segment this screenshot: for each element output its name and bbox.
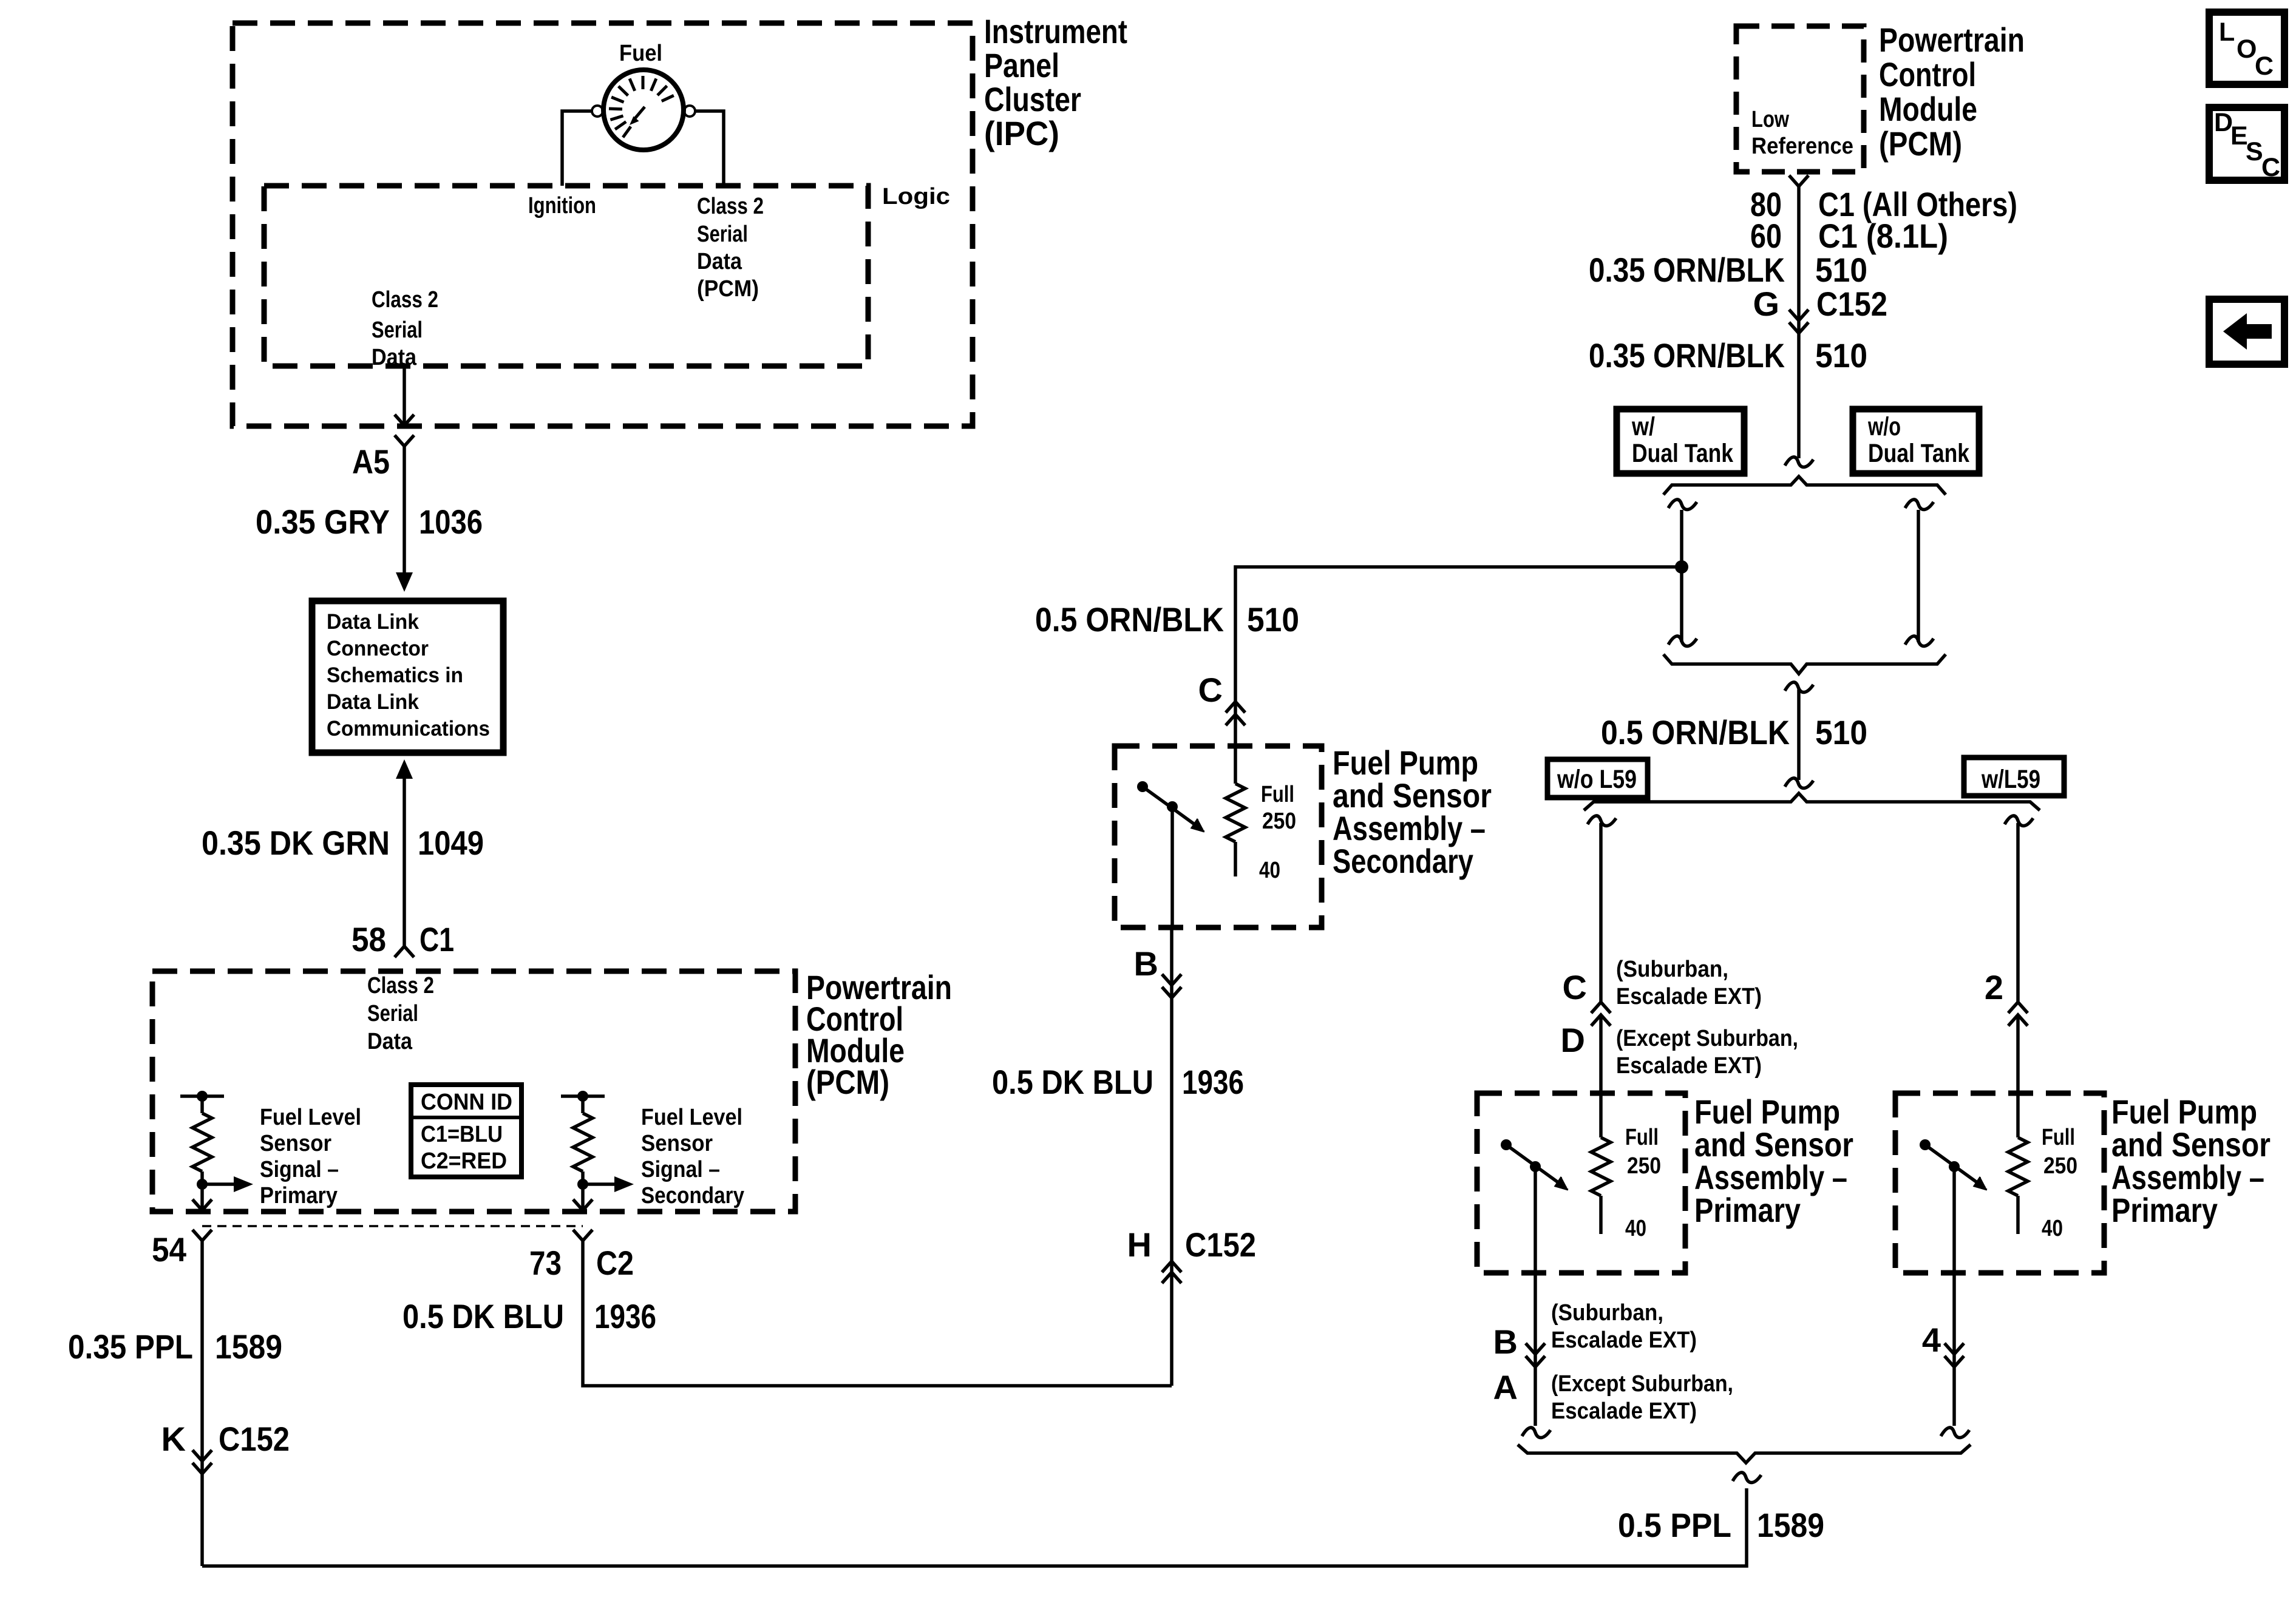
svg-text:54: 54 (152, 1230, 186, 1269)
wire left branch down (1599, 823, 1603, 1002)
svg-text:H: H (1127, 1225, 1152, 1264)
wire label 0.5 DK BLU 1936 (pin 73) (402, 1297, 656, 1335)
svg-text:C1=BLU: C1=BLU (421, 1122, 503, 1147)
curl right branch bottom (1941, 1428, 1969, 1438)
connector B/A (below primary left) (1526, 1343, 1545, 1367)
svg-text:Secondary: Secondary (1333, 842, 1473, 880)
svg-text:C: C (2255, 52, 2274, 81)
svg-text:CONN ID: CONN ID (421, 1090, 512, 1115)
label: Fuel Level Sensor Signal - Secondary (641, 1105, 744, 1209)
svg-text:Class 2: Class 2 (367, 973, 434, 998)
svg-text:(PCM): (PCM) (1879, 124, 1962, 163)
connector K C152 (192, 1450, 212, 1474)
svg-text:250: 250 (1262, 808, 1296, 834)
svg-text:Class 2: Class 2 (372, 287, 438, 313)
svg-text:A5: A5 (352, 442, 390, 481)
svg-text:Full: Full (1261, 782, 1294, 807)
svg-text:1049: 1049 (418, 824, 484, 862)
w/ Dual Tank box (1617, 409, 1744, 473)
label: Low Reference (1751, 107, 1853, 159)
brace merge dual tank (1663, 654, 1946, 674)
pin label A5 (352, 442, 390, 481)
PCM low reference dashed box (1736, 26, 1864, 172)
svg-text:K: K (161, 1420, 186, 1458)
connector fork 58 C1 (395, 946, 414, 957)
svg-text:D: D (1561, 1021, 1585, 1059)
wire gauge right to Class 2 (695, 111, 724, 186)
svg-text:(IPC): (IPC) (984, 114, 1059, 152)
curl right branch top (2005, 816, 2033, 826)
curl right bus top (1905, 500, 1934, 510)
svg-text:Control: Control (1879, 55, 1976, 93)
svg-text:Cluster: Cluster (984, 80, 1081, 118)
svg-text:4: 4 (1922, 1321, 1941, 1359)
svg-text:0.5 DK BLU: 0.5 DK BLU (992, 1063, 1153, 1101)
svg-text:C152: C152 (219, 1420, 290, 1458)
svg-text:Ignition: Ignition (528, 193, 596, 219)
note (Except Suburban, Escalade EXT) lower (1551, 1371, 1733, 1424)
svg-text:Secondary: Secondary (641, 1183, 744, 1209)
right bus wire (1917, 510, 1920, 642)
connector fork pin 54 (192, 1230, 212, 1241)
sender resistor (primary right) (2008, 1137, 2028, 1234)
brace split L59 (1584, 793, 2040, 810)
label: Fuel (619, 41, 662, 66)
svg-text:Serial: Serial (697, 222, 748, 247)
wire IPC class2 output (402, 366, 406, 424)
svg-text:C1 (8.1L): C1 (8.1L) (1818, 217, 1948, 255)
svg-text:0.5 PPL: 0.5 PPL (1618, 1506, 1731, 1544)
svg-text:Powertrain: Powertrain (1879, 21, 2025, 59)
curl below merge (1785, 682, 1813, 693)
svg-text:C: C (2261, 153, 2280, 182)
svg-text:Data: Data (367, 1029, 413, 1054)
svg-text:Primary: Primary (2111, 1191, 2218, 1229)
svg-text:w/L59: w/L59 (1981, 765, 2040, 794)
svg-text:Escalade EXT): Escalade EXT) (1551, 1327, 1697, 1353)
label: Full 250 40 (secondary) (1259, 782, 1296, 883)
svg-text:Class 2: Class 2 (697, 194, 764, 219)
svg-text:250: 250 (2043, 1153, 2077, 1179)
svg-text:Serial: Serial (367, 1001, 418, 1026)
wire label 0.35 ORN/BLK 510 (lower) (1589, 336, 1867, 375)
back arrow icon (2223, 313, 2272, 350)
logic inner dashed box (264, 186, 868, 366)
wire label 0.5 DK BLU 1936 (H riser) (992, 1063, 1244, 1101)
label: Data Link Connector Schematics in Data Link Communications (327, 610, 490, 741)
DESC box (2209, 107, 2284, 180)
label: Class 2 Serial Data (PCM) (697, 194, 764, 302)
fuel pump and sensor assembly primary left dashed box (1477, 1093, 1685, 1273)
pin label 58 C1 (352, 920, 454, 958)
fuel gauge G1 (592, 70, 695, 150)
svg-text:C1: C1 (419, 920, 454, 958)
wire switch to B (1170, 807, 1174, 927)
note (Suburban, Escalade EXT) lower (1551, 1300, 1697, 1353)
pin label C (1198, 671, 1223, 709)
pin label 4 (1922, 1321, 1941, 1359)
svg-text:Dual Tank: Dual Tank (1868, 439, 1969, 468)
label: Logic (882, 184, 950, 209)
note (Suburban, Escalade EXT) upper (1616, 957, 1762, 1009)
label: Fuel Pump and Sensor Assembly - Primary (left) (1694, 1093, 1853, 1229)
label: Ignition (528, 193, 596, 219)
CONN ID table (411, 1085, 521, 1177)
sender resistor (secondary) (1226, 746, 1245, 876)
svg-text:40: 40 (2042, 1216, 2063, 1241)
connector fork 80/60 C1 (1789, 175, 1809, 186)
pin label D (1561, 1021, 1585, 1059)
label: w/o Dual Tank (1867, 412, 1969, 468)
wire DLC to pin 58 (402, 779, 406, 946)
Data Link Connector box (312, 601, 503, 753)
pin label B (1134, 944, 1158, 983)
svg-text:510: 510 (1815, 713, 1867, 751)
fuel pump and sensor assembly secondary dashed box (1115, 746, 1322, 927)
svg-text:B: B (1493, 1323, 1518, 1361)
svg-text:0.35 PPL: 0.35 PPL (68, 1327, 193, 1366)
svg-text:C152: C152 (1816, 285, 1887, 323)
curl left branch bottom (1522, 1428, 1550, 1438)
wire merge down (1797, 690, 1801, 780)
wire label 0.5 ORN/BLK 510 (merge) (1601, 713, 1867, 751)
svg-text:Full: Full (1625, 1125, 1659, 1150)
svg-text:0.35 ORN/BLK: 0.35 ORN/BLK (1589, 251, 1785, 289)
brace split dual tank (1663, 476, 1946, 495)
svg-text:(Except Suburban,: (Except Suburban, (1551, 1371, 1733, 1397)
svg-text:Full: Full (2042, 1125, 2075, 1150)
pin label 54 (152, 1230, 186, 1269)
connector G C152 (1789, 310, 1809, 333)
switch wiper (primary left) (1501, 1139, 1568, 1190)
wire label 0.5 PPL 1589 (1618, 1506, 1824, 1544)
label: Fuel Level Sensor Signal - Primary (260, 1105, 361, 1209)
svg-text:0.5 DK BLU: 0.5 DK BLU (402, 1297, 564, 1335)
svg-text:Fuel Level: Fuel Level (641, 1105, 742, 1130)
signal arrow secondary (583, 1176, 634, 1192)
label: Powertrain Control Module (PCM) (806, 968, 952, 1101)
svg-text:73: 73 (529, 1244, 562, 1282)
svg-text:Escalade EXT): Escalade EXT) (1616, 984, 1762, 1009)
bottom bus wire (202, 1488, 1747, 1566)
PCM dashed box (152, 971, 795, 1212)
junction dot (1675, 560, 1688, 574)
pin label H C152 (1127, 1225, 1256, 1264)
connector C2 dashed interface line (202, 1225, 583, 1227)
svg-text:C: C (1563, 968, 1587, 1006)
svg-text:Primary: Primary (260, 1183, 338, 1209)
svg-text:Fuel: Fuel (619, 41, 662, 66)
label: LOC (2219, 18, 2274, 81)
svg-text:1936: 1936 (594, 1297, 656, 1335)
wire switch down (primary left) (1533, 1167, 1537, 1426)
pin label 73 C2 (529, 1244, 634, 1282)
switch wiper (primary right) (1920, 1139, 1987, 1190)
label: Fuel Pump and Sensor Assembly - Secondary (1333, 744, 1492, 880)
svg-text:58: 58 (352, 920, 386, 958)
label: Class 2 Serial Data (PCM internal) (367, 973, 434, 1054)
wire 2 into primary right box (2016, 1015, 2020, 1137)
switch wiper (secondary) (1137, 781, 1204, 832)
connector arrow at pin 54 exit (192, 1199, 212, 1210)
wire C riser above secondary box (1234, 702, 1237, 746)
svg-text:40: 40 (1625, 1216, 1646, 1241)
label: DESC (2214, 108, 2280, 182)
svg-text:Data: Data (372, 345, 417, 370)
wire C/D into primary left box (1599, 1015, 1603, 1137)
svg-text:C2: C2 (596, 1244, 634, 1282)
wire label 0.35 ORN/BLK 510 (upper) (1589, 251, 1867, 289)
connector 4 (below primary right) (1944, 1343, 1964, 1367)
svg-text:(PCM): (PCM) (806, 1063, 889, 1101)
w/L59 box (1964, 758, 2064, 796)
svg-text:Primary: Primary (1694, 1191, 1801, 1229)
svg-text:1589: 1589 (1757, 1506, 1824, 1544)
label: Fuel Pump and Sensor Assembly - Primary (right) (2111, 1093, 2271, 1229)
arrowhead into DLC (396, 572, 413, 592)
arrowhead up into DLC (396, 759, 413, 779)
curl left branch top (1588, 816, 1616, 826)
svg-text:Logic: Logic (882, 184, 950, 209)
curl above L59 split (1785, 778, 1813, 788)
svg-text:(Except Suburban,: (Except Suburban, (1616, 1026, 1798, 1051)
svg-text:Sensor: Sensor (641, 1131, 713, 1156)
svg-text:510: 510 (1815, 336, 1867, 375)
svg-text:w/o: w/o (1867, 412, 1901, 441)
svg-text:(PCM): (PCM) (697, 276, 759, 302)
pin label A (1493, 1368, 1518, 1406)
wire switch down (primary right) (1952, 1167, 1956, 1426)
svg-text:0.35 DK GRN: 0.35 DK GRN (202, 824, 390, 862)
wire A5 to DLC (402, 446, 406, 574)
pin label K C152 (161, 1420, 290, 1458)
svg-text:(Suburban,: (Suburban, (1551, 1300, 1663, 1326)
svg-text:Communications: Communications (327, 717, 490, 741)
curl left bus bottom (1668, 636, 1697, 646)
svg-text:Escalade EXT): Escalade EXT) (1551, 1398, 1697, 1424)
svg-text:S: S (2246, 137, 2263, 166)
wire label 0.35 DK GRN 1049 (202, 824, 484, 862)
left bus wire (1680, 510, 1683, 642)
svg-text:1036: 1036 (419, 503, 483, 541)
svg-text:2: 2 (1985, 968, 2003, 1006)
back arrow box (2209, 299, 2284, 364)
pin label 60 C1 (8.1L) (1750, 217, 1948, 255)
w/o L59 box (1547, 759, 1648, 798)
wire C to junction (1235, 567, 1682, 702)
connector fork pin 73 (573, 1230, 593, 1241)
resistor: fuel level sensor signal secondary (561, 1091, 605, 1190)
svg-text:0.35 GRY: 0.35 GRY (256, 503, 390, 541)
svg-text:Fuel Level: Fuel Level (260, 1105, 361, 1130)
connector arrow at pin 73 exit (573, 1199, 593, 1210)
svg-text:C152: C152 (1185, 1225, 1256, 1264)
label: w/o L59 (1557, 765, 1637, 794)
pin label 2 (1985, 968, 2003, 1006)
label: w/ Dual Tank (1631, 412, 1733, 468)
wire gauge left to Ignition (562, 111, 593, 186)
pin label 80 C1 (All Others) (1750, 185, 2017, 223)
svg-text:0.5 ORN/BLK: 0.5 ORN/BLK (1035, 600, 1224, 639)
w/o Dual Tank box (1853, 409, 1979, 473)
svg-text:Reference: Reference (1751, 134, 1853, 159)
svg-text:60: 60 (1750, 217, 1782, 255)
wire right branch down (2016, 823, 2020, 1002)
svg-text:L: L (2219, 18, 2235, 47)
svg-text:1936: 1936 (1182, 1063, 1244, 1101)
wire label 0.35 GRY 1036 (256, 503, 483, 541)
label: Powertrain Control Module (PCM) top right (1879, 21, 2025, 163)
wire primary sensor to pin 54 (200, 1184, 204, 1210)
svg-text:Data Link: Data Link (327, 690, 419, 714)
IPC outer dashed box (233, 23, 973, 426)
connector B (secondary assembly) (1162, 974, 1181, 998)
pin label G C152 (1753, 285, 1887, 323)
svg-text:w/o L59: w/o L59 (1557, 765, 1637, 794)
svg-text:0.35 ORN/BLK: 0.35 ORN/BLK (1589, 336, 1785, 375)
svg-text:Sensor: Sensor (260, 1131, 331, 1156)
wire pin 73 down and right (583, 1241, 1172, 1386)
resistor: fuel level sensor signal primary (180, 1091, 224, 1190)
svg-text:510: 510 (1815, 251, 1867, 289)
sender resistor (primary left) (1591, 1137, 1611, 1234)
svg-text:Serial: Serial (372, 317, 423, 343)
note (Except Suburban, Escalade EXT) upper (1616, 1026, 1798, 1079)
curl above PPL wire (1733, 1473, 1761, 1483)
svg-text:C2=RED: C2=RED (421, 1148, 507, 1174)
svg-text:1589: 1589 (215, 1327, 282, 1366)
connector H C152 (1162, 1261, 1181, 1283)
brace merge bottom (1518, 1445, 1971, 1463)
fuel pump and sensor assembly primary right dashed box (1895, 1093, 2104, 1273)
svg-text:510: 510 (1247, 600, 1299, 639)
label: w/L59 (1981, 765, 2040, 794)
svg-text:Signal –: Signal – (641, 1157, 720, 1182)
svg-text:40: 40 (1259, 858, 1280, 883)
svg-text:A: A (1493, 1368, 1518, 1406)
svg-text:Escalade EXT): Escalade EXT) (1616, 1053, 1762, 1079)
wire secondary sensor to pin 73 (581, 1184, 585, 1210)
svg-text:G: G (1753, 285, 1779, 323)
connector C/D (primary left) (1591, 1002, 1611, 1026)
svg-text:B: B (1134, 944, 1158, 983)
svg-text:Instrument: Instrument (984, 12, 1127, 50)
svg-text:0.5 ORN/BLK: 0.5 ORN/BLK (1601, 713, 1790, 751)
wire label 0.5 ORN/BLK 510 (C riser) (1035, 600, 1299, 639)
label: Full 250 40 (primary right) (2042, 1125, 2077, 1241)
curl main wire end (1785, 457, 1813, 467)
connector fork A5 (395, 435, 414, 446)
svg-text:Schematics in: Schematics in (327, 663, 463, 687)
svg-text:C: C (1198, 671, 1223, 709)
wire pin 54 down (200, 1241, 204, 1566)
label: Class 2 Serial Data (IPC internal) (372, 287, 438, 370)
wire low reference down (1797, 186, 1801, 458)
label: CONN ID C1=BLU C2=RED (421, 1090, 512, 1174)
connector 2 (primary right) (2008, 1002, 2028, 1026)
wire H riser (1170, 927, 1173, 1386)
svg-text:Data Link: Data Link (327, 610, 419, 634)
svg-text:w/: w/ (1631, 412, 1655, 441)
label: Full 250 40 (primary left) (1625, 1125, 1661, 1241)
svg-text:Signal –: Signal – (260, 1157, 339, 1182)
svg-text:Dual Tank: Dual Tank (1632, 439, 1733, 468)
svg-text:Low: Low (1751, 107, 1789, 132)
wire label 0.35 PPL 1589 (68, 1327, 282, 1366)
curl left bus top (1668, 500, 1697, 510)
svg-text:Connector: Connector (327, 637, 429, 660)
svg-text:(Suburban,: (Suburban, (1616, 957, 1728, 982)
pin label C (1563, 968, 1587, 1006)
svg-text:Module: Module (1879, 90, 1977, 128)
LOC box (2209, 12, 2284, 84)
label: Instrument Panel Cluster (IPC) (984, 12, 1127, 152)
curl right bus bottom (1905, 636, 1934, 646)
svg-text:Data: Data (697, 249, 742, 274)
svg-text:Panel: Panel (984, 46, 1059, 84)
pin label B (1493, 1323, 1518, 1361)
connector arrow at IPC exit (395, 415, 414, 425)
connector C (secondary assembly) (1226, 702, 1245, 725)
svg-text:O: O (2237, 35, 2257, 64)
signal arrow primary (202, 1176, 253, 1192)
svg-text:250: 250 (1627, 1153, 1661, 1179)
